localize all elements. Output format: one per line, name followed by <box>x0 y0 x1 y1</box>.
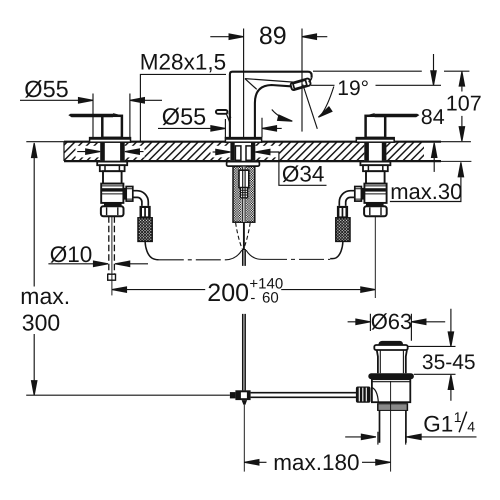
pull rod slanted <box>226 113 230 123</box>
centre washer below deck <box>227 162 260 166</box>
left handle post <box>102 116 122 138</box>
dim 200 line <box>112 289 375 291</box>
svg-text:Ø34: Ø34 <box>282 162 325 187</box>
left valve bottom band <box>104 203 122 206</box>
dim Ø55 left line <box>20 99 162 101</box>
left valve shank through deck <box>100 142 125 160</box>
pull rod upper single <box>243 222 245 250</box>
svg-text:35-45: 35-45 <box>422 351 476 374</box>
svg-text:300: 300 <box>22 309 60 335</box>
Ø34 deck arrows left shank <box>77 151 143 153</box>
right valve stripe lines <box>365 186 387 194</box>
supply centreline right <box>262 258 330 260</box>
left valve hex collar <box>100 165 125 171</box>
centre shank inner right detail <box>246 146 252 160</box>
left elbow pipe <box>133 191 149 206</box>
right valve shank through deck <box>364 142 386 160</box>
left shank right wall <box>120 142 125 160</box>
junction white centre <box>241 392 247 398</box>
drain ball housing arc <box>372 387 378 402</box>
centre shank inner left detail <box>235 146 241 160</box>
dim Ø63 extensions <box>370 314 411 341</box>
deck bottom line <box>64 160 441 162</box>
left shank left wall <box>100 142 105 160</box>
deck left edge <box>63 142 65 161</box>
svg-text:Ø63: Ø63 <box>371 309 413 334</box>
dim 89 extension left <box>243 29 245 138</box>
centre shank through deck <box>230 142 255 160</box>
right valve flange plate <box>360 162 390 166</box>
centre shank left wall <box>230 142 234 160</box>
svg-text:60: 60 <box>262 289 279 306</box>
dim G1 1/4 line <box>345 436 476 438</box>
dim 35-45 ticks <box>408 346 456 374</box>
svg-text:Ø10: Ø10 <box>50 242 93 267</box>
left braided hose <box>138 218 152 242</box>
left handle escutcheon <box>90 138 131 143</box>
junction left collar <box>230 392 236 398</box>
pull rod double to junction <box>243 249 245 390</box>
right valve side port nut <box>355 187 362 202</box>
deck bottom extension right <box>441 160 471 162</box>
dim 89 arrows <box>229 34 244 39</box>
right valve side port block <box>361 188 364 200</box>
G1 1/4 slash <box>459 412 467 433</box>
left lever slope <box>113 114 123 117</box>
pull rod through shank <box>243 167 245 223</box>
svg-text:max.180: max.180 <box>273 450 359 475</box>
dim G1 1/4 extensions <box>378 432 406 445</box>
right valve lower nut <box>364 206 387 216</box>
left valve stripe lines <box>101 186 123 194</box>
pull rod guide slot <box>239 170 249 187</box>
right valve bottom band <box>366 203 384 206</box>
drain neck inner lines <box>380 350 403 373</box>
svg-text:-: - <box>250 289 255 306</box>
right handle lever <box>375 114 420 118</box>
svg-text:G1: G1 <box>423 411 453 436</box>
right valve upper body <box>366 171 385 183</box>
drain plug lens <box>378 341 403 345</box>
dim Ø55 mid line <box>158 127 282 129</box>
pull rod knob <box>216 110 228 114</box>
svg-text:max.30: max.30 <box>390 179 462 204</box>
dim 107 top arrow <box>461 87 463 92</box>
dim 107 bottom arrow <box>461 116 463 126</box>
dim 84 top arrow <box>433 54 435 71</box>
svg-text:max.: max. <box>20 283 70 309</box>
right shank left wall <box>364 142 369 160</box>
centreline arch over rod <box>226 250 262 260</box>
svg-text:Ø55: Ø55 <box>162 103 206 129</box>
right valve centre line <box>374 216 376 298</box>
centre threaded shank <box>233 166 255 222</box>
19 degree arc <box>272 110 292 122</box>
rod channel <box>242 167 246 222</box>
svg-text:84: 84 <box>421 105 445 129</box>
drain neck walls <box>377 350 407 373</box>
supply centreline left <box>159 259 226 261</box>
19 degree label leader <box>321 87 334 116</box>
drain body bottom step <box>372 401 410 403</box>
right hose tail <box>330 242 343 259</box>
funnel dashed left <box>236 223 243 249</box>
svg-text:19°: 19° <box>337 77 369 100</box>
funnel dashed right <box>243 223 250 249</box>
left valve side port block <box>123 188 126 200</box>
right shank right wall <box>382 142 387 160</box>
svg-text:1: 1 <box>454 409 462 425</box>
right handle escutcheon <box>356 138 394 143</box>
dim Ø63 line <box>348 321 446 323</box>
left valve centre line <box>111 216 113 295</box>
dim 89 line right <box>302 36 327 38</box>
left valve lower nut <box>101 206 124 216</box>
countertop deck hatched band <box>64 142 424 160</box>
centre shank right wall <box>251 142 255 160</box>
left valve side port nut <box>126 187 133 202</box>
left valve dark band <box>102 188 123 191</box>
left tailpipe dashed <box>109 216 115 274</box>
deck top line <box>64 141 441 143</box>
right elbow pipe <box>339 191 355 206</box>
drain body top line <box>372 381 410 383</box>
drain centre line <box>390 381 392 472</box>
dim 89 line left <box>210 36 243 38</box>
dim 84 bottom arrow <box>433 157 435 172</box>
svg-text:M28x1,5: M28x1,5 <box>140 50 226 75</box>
right hose connector <box>337 206 348 218</box>
left tailpipe end box <box>108 274 116 280</box>
white gap under left shank dimension arrows <box>76 146 145 158</box>
drain body <box>372 379 410 402</box>
19 degree slant line <box>303 85 318 129</box>
left handle lever <box>68 114 113 118</box>
spout top reference line <box>313 70 469 72</box>
dim Ø55 left extensions <box>93 94 130 138</box>
dim Ø10 line <box>48 263 148 265</box>
Ø34 label leader <box>255 152 326 185</box>
junction lower thin line <box>243 405 245 472</box>
deck top extension right <box>441 141 471 143</box>
right valve dark band <box>365 188 386 191</box>
rod T junction block <box>235 390 250 400</box>
dim max.180 line <box>244 461 390 463</box>
svg-text:200: 200 <box>207 279 249 307</box>
dim Ø55 mid extensions <box>225 118 262 138</box>
right valve lower body <box>364 184 386 203</box>
max.30 leader <box>390 177 461 201</box>
floor reference line <box>26 394 230 396</box>
spout inner top line <box>245 79 294 83</box>
left valve flange plate <box>97 162 127 166</box>
svg-text:107: 107 <box>446 91 482 115</box>
white gap under centre shank dimension arrows <box>211 146 280 158</box>
aerator <box>290 78 311 91</box>
drain knurled knob <box>356 387 371 403</box>
drain thread collar <box>378 404 408 410</box>
svg-text:89: 89 <box>259 22 287 50</box>
drain tailpipe <box>380 410 406 443</box>
left hose connector <box>140 206 151 218</box>
left valve lower body <box>101 184 123 203</box>
right braided hose <box>336 218 350 242</box>
aerator reference line <box>311 84 441 86</box>
deck top extension left <box>26 141 64 143</box>
Ø34 deck arrows centre shank <box>213 151 216 153</box>
left hose tail <box>145 242 159 260</box>
M28x1,5 leader <box>140 74 226 141</box>
svg-text:Ø55: Ø55 <box>24 76 68 102</box>
left valve upper body <box>103 171 122 183</box>
horizontal pop-up rod <box>251 393 357 398</box>
spout underside and column right edge <box>255 85 293 138</box>
spout inner diagonal <box>245 79 257 90</box>
spout body outline <box>230 72 312 138</box>
dim 35-45 arrows <box>450 309 452 401</box>
drain gasket <box>368 373 414 379</box>
right lever slope <box>365 114 375 117</box>
spout escutcheon <box>225 138 261 143</box>
right valve hex collar <box>363 165 388 171</box>
dim max.300 line <box>33 157 35 380</box>
right handle post <box>366 116 386 138</box>
aerator to spout edge link <box>309 78 312 82</box>
drain flange <box>374 345 407 350</box>
svg-text:4: 4 <box>467 419 475 435</box>
dim 89 extension right <box>301 29 303 132</box>
junction bottom stub <box>242 400 248 405</box>
slot inner block <box>240 188 247 198</box>
